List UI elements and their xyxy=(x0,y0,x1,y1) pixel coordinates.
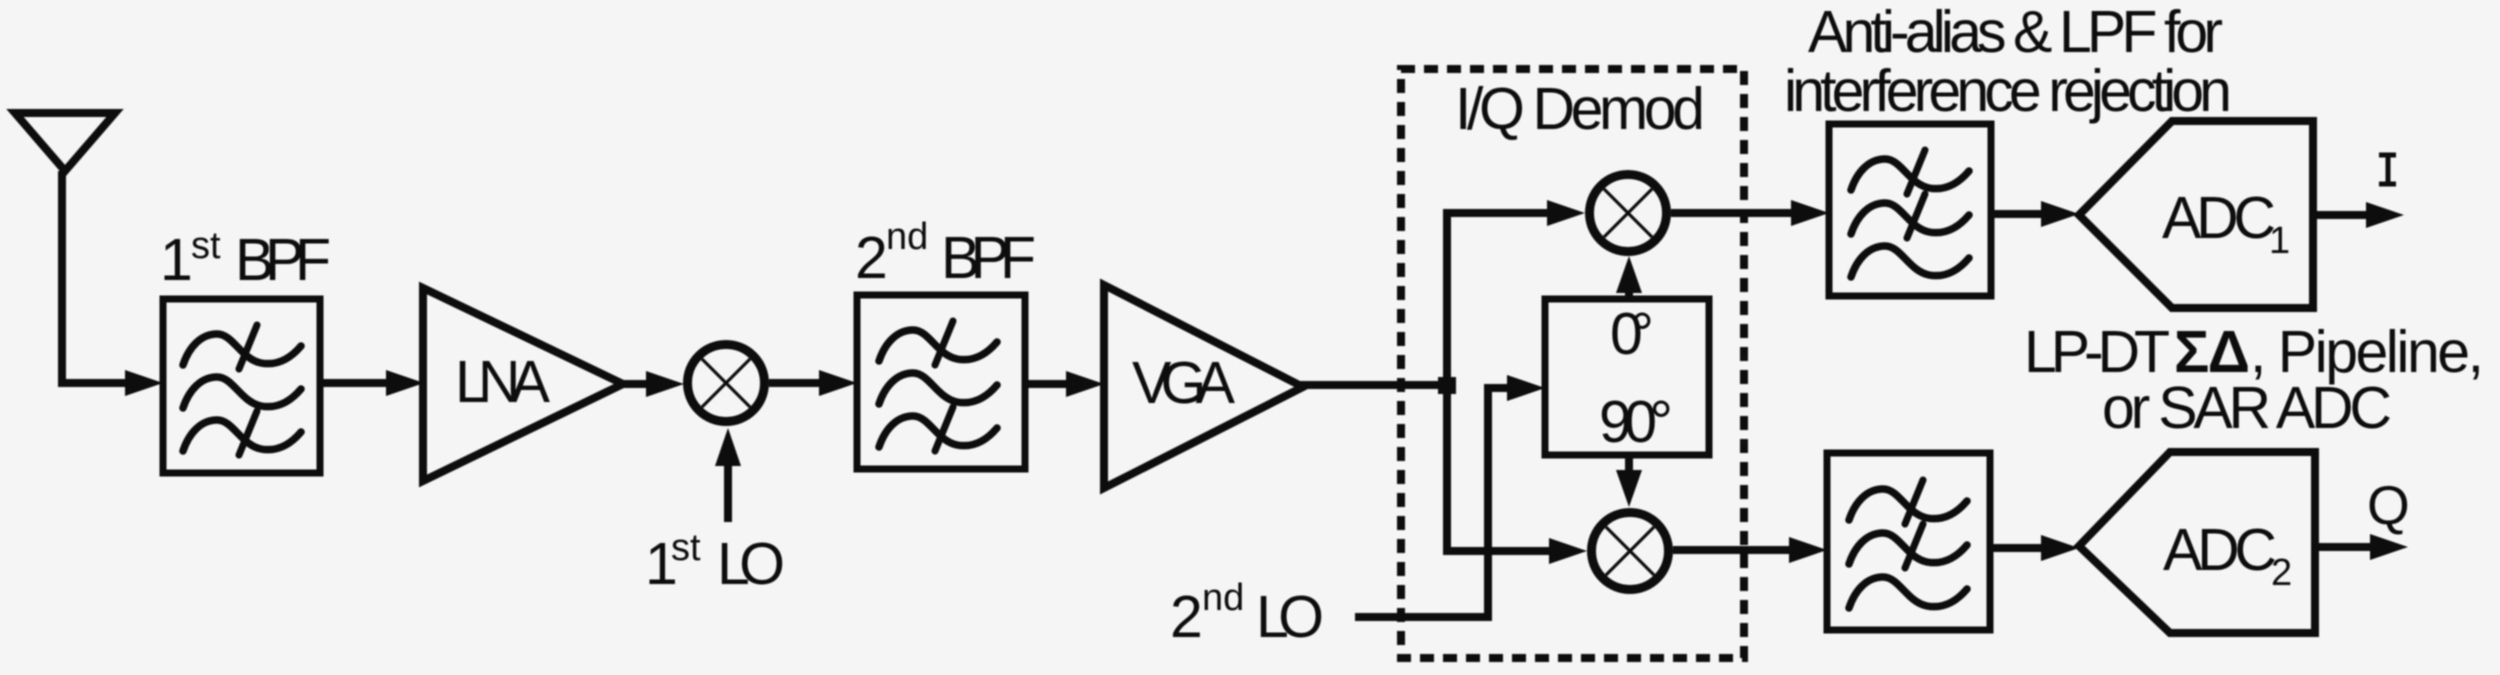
F3 wave 3 xyxy=(1851,246,1969,277)
ADC1 xyxy=(2079,121,2313,308)
wire ADC2 output Q xyxy=(2315,543,2374,551)
F3 wave 1 xyxy=(1851,159,1969,190)
node A junction dot xyxy=(1438,377,1456,394)
svg-text:BPF: BPF xyxy=(235,227,331,293)
phase shifter box 0/90 xyxy=(1545,299,1709,455)
F2 slash 1 xyxy=(935,321,953,365)
F4 slash 1 xyxy=(1905,480,1923,524)
F4 wave 1 xyxy=(1849,489,1967,520)
F4 wave 3 xyxy=(1849,577,1967,608)
wire phase box to M2 (up arrow) xyxy=(1625,290,1633,299)
mixer M2 xyxy=(1590,175,1667,252)
wire 1st LO to M1 xyxy=(724,466,732,522)
amplifier VGA xyxy=(1104,285,1303,488)
F2 slash 3 xyxy=(935,407,953,451)
F3 slash 1 xyxy=(1907,150,1925,194)
svg-text:interference rejection: interference rejection xyxy=(1784,58,2232,124)
wire F4 to ADC2 xyxy=(1990,544,2045,552)
svg-text:0°: 0° xyxy=(1610,301,1654,367)
amplifier LNA xyxy=(423,288,623,481)
label I xyxy=(2379,155,2396,184)
svg-text:LO: LO xyxy=(717,531,785,597)
F1 slash 1 xyxy=(239,325,257,369)
svg-text:nd: nd xyxy=(1202,577,1244,619)
svg-text:LNA: LNA xyxy=(455,349,551,415)
wire BPF2 to VGA xyxy=(1025,380,1072,388)
filter F4 box (anti-alias LPF 2) xyxy=(1827,453,1990,630)
svg-text:Q: Q xyxy=(2367,474,2410,536)
wire M3 to LPF2 xyxy=(1673,546,1793,554)
wire VGA to node A xyxy=(1300,381,1447,389)
F3 slash 2 xyxy=(1907,194,1925,238)
filter F2 box (2nd BPF) xyxy=(857,295,1025,469)
wire M2 to LPF1 xyxy=(1671,209,1795,217)
wire phase box to M3 (down arrow) xyxy=(1625,455,1633,470)
svg-text:ADC: ADC xyxy=(2162,185,2276,251)
mixer M1 xyxy=(688,345,765,422)
F3 wave 2 xyxy=(1851,203,1969,234)
svg-text:2: 2 xyxy=(1170,584,1203,650)
F1 wave 1 xyxy=(183,334,301,365)
wire F3 to ADC1 xyxy=(1991,210,2045,218)
svg-text:90°: 90° xyxy=(1599,389,1673,455)
filter F3 box (anti-alias LPF 1) xyxy=(1829,124,1991,296)
F2 wave 3 xyxy=(879,416,997,447)
filter F1 box (1st BPF) xyxy=(163,299,320,473)
svg-text:2: 2 xyxy=(855,225,888,291)
wire node A to mixer M3 xyxy=(1447,385,1551,551)
wire 2nd LO to phase box xyxy=(1355,388,1509,617)
svg-text:st: st xyxy=(671,527,701,569)
wire node A to mixer M2 xyxy=(1447,213,1551,385)
svg-text:VGA: VGA xyxy=(1132,350,1236,416)
F1 wave 2 xyxy=(183,377,301,408)
F4 wave 2 xyxy=(1849,533,1967,564)
F2 wave 2 xyxy=(879,373,997,404)
mixer M3 xyxy=(1592,513,1669,590)
dashed box I/Q Demod xyxy=(1401,69,1744,658)
svg-text:1: 1 xyxy=(160,227,193,293)
wire antenna to BPF1 xyxy=(62,171,130,383)
wire ADC1 output I xyxy=(2313,211,2370,219)
svg-text:ADC: ADC xyxy=(2163,517,2277,583)
wire BPF1 to LNA xyxy=(320,379,392,387)
svg-text:Anti-alias & LPF for: Anti-alias & LPF for xyxy=(1808,0,2223,65)
svg-text:nd: nd xyxy=(886,216,928,258)
svg-text:I/Q Demod: I/Q Demod xyxy=(1455,76,1705,142)
svg-text:st: st xyxy=(191,225,221,267)
F2 wave 1 xyxy=(879,330,997,361)
svg-text:or SAR ADC: or SAR ADC xyxy=(2102,375,2392,441)
F1 wave 3 xyxy=(183,420,301,451)
wire LNA to mixer M1 xyxy=(620,380,652,388)
wire M1 to BPF2 xyxy=(769,379,823,387)
svg-text:LO: LO xyxy=(1256,584,1324,650)
svg-text:BPF: BPF xyxy=(941,225,1036,291)
F1 slash 3 xyxy=(239,411,257,455)
F4 slash 2 xyxy=(1905,524,1923,568)
antenna xyxy=(15,113,115,171)
svg-text:1: 1 xyxy=(2269,220,2290,262)
svg-text:2: 2 xyxy=(2271,552,2292,594)
ADC2 xyxy=(2079,452,2315,633)
